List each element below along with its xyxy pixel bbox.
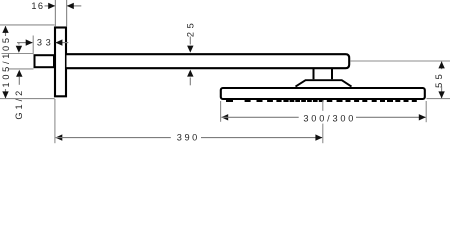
extension line 105 bottom — [0, 98, 55, 100]
dimension 16 arrows — [45, 5, 55, 7]
extension line 390 left — [54, 99, 56, 143]
dimension 105/105 line+arrows — [5, 26, 7, 36]
extension line 55 top — [351, 60, 450, 62]
joint cone — [296, 80, 352, 86]
extension line 105 top — [0, 24, 55, 26]
dimension 33 arrows — [17, 42, 32, 44]
extension line 55 bottom — [427, 98, 450, 100]
G1/2 wall connector — [35, 55, 55, 67]
dimension 25 arrows — [189, 37, 191, 45]
extension line 16 left — [54, 0, 56, 26]
dimension 300/300 line+arrows — [221, 114, 228, 120]
extension line 300 left — [220, 101, 222, 122]
svg-text:25: 25 — [186, 20, 196, 37]
svg-text:55: 55 — [434, 71, 444, 88]
dimension 390 line+arrows — [55, 134, 62, 140]
svg-text:300/300: 300/300 — [303, 113, 356, 123]
svg-text:16: 16 — [31, 1, 44, 11]
extension line 33 — [32, 36, 34, 55]
svg-text:390: 390 — [177, 133, 200, 143]
dimension 55 line+arrows — [441, 62, 443, 70]
dimension G1/2 arrows — [18, 43, 20, 45]
extension line G1/2 top — [2, 53, 34, 55]
extension line G1/2 bottom — [8, 68, 34, 70]
shower arm (side profile) — [67, 54, 350, 68]
extension line 16 right — [66, 0, 68, 26]
shower head slab — [221, 88, 425, 99]
ball-joint stem — [314, 69, 333, 80]
wall plate (escutcheon side profile) — [55, 28, 66, 97]
extension line 390 right — [322, 101, 324, 111]
extension line 300 right — [425, 101, 427, 122]
svg-text:33: 33 — [37, 38, 54, 48]
svg-text:G1/2: G1/2 — [14, 88, 24, 120]
svg-text:105/105: 105/105 — [1, 35, 11, 87]
spray nozzles — [226, 100, 417, 102]
